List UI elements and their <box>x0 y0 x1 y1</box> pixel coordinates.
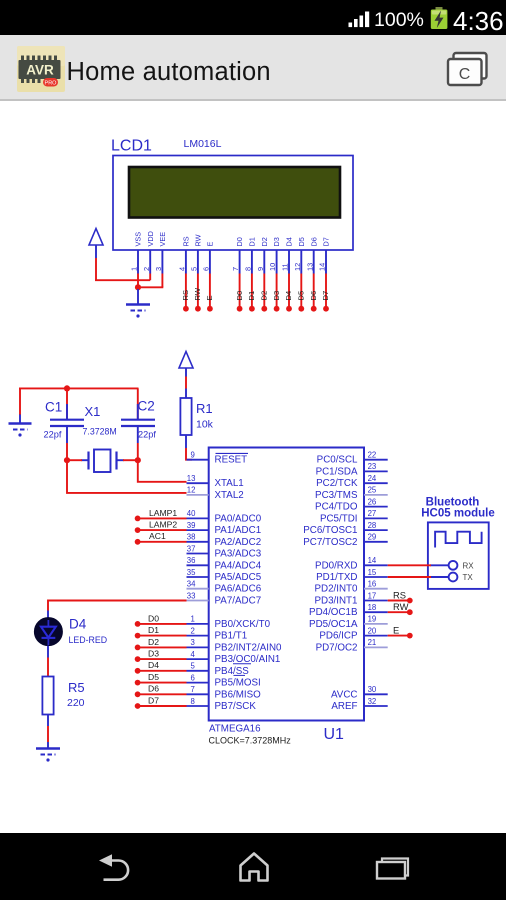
svg-text:PA5/ADC5: PA5/ADC5 <box>215 572 262 583</box>
svg-text:32: 32 <box>368 697 377 706</box>
LCD pin 11 stub <box>288 250 290 274</box>
resistor R1 value 10k <box>196 419 214 431</box>
svg-text:4: 4 <box>191 650 196 659</box>
signal bars icon <box>349 12 370 28</box>
wire VDD pin drop <box>149 274 151 281</box>
svg-text:D2: D2 <box>260 237 269 246</box>
net label D7 <box>321 291 330 301</box>
svg-text:PB2/INT2/AIN0: PB2/INT2/AIN0 <box>215 642 283 653</box>
pin number 12 <box>187 486 196 495</box>
pin name PA7/ADC7 <box>215 596 262 607</box>
LCD pin 6 stub <box>209 250 211 274</box>
nav back button <box>95 851 133 885</box>
svg-text:TX: TX <box>463 573 474 582</box>
pin 25 (PC3/TMS) stub <box>364 494 388 496</box>
svg-text:RX: RX <box>463 561 475 570</box>
LCD pin label RW <box>194 234 203 246</box>
svg-text:6: 6 <box>191 673 195 682</box>
svg-text:D5: D5 <box>148 672 159 682</box>
LCD screen <box>129 167 340 218</box>
pin 27 (PC5/TDI) stub <box>364 517 388 519</box>
svg-text:29: 29 <box>368 533 377 542</box>
pin name PD2/INT0 <box>314 584 358 595</box>
pin name PB2/INT2/AIN0 <box>215 642 283 653</box>
pin 26 (PC4/TDO) stub <box>364 506 388 508</box>
svg-text:16: 16 <box>368 580 377 589</box>
wire D0 (LCD pin 7) <box>239 274 241 308</box>
wire VEE to ground junction <box>138 286 163 288</box>
LCD pin number 13 <box>305 263 314 271</box>
pin number 32 <box>368 697 377 706</box>
svg-text:14: 14 <box>318 263 327 271</box>
svg-text:D1: D1 <box>247 291 256 301</box>
net label D5 <box>297 291 306 301</box>
svg-text:RS: RS <box>393 589 406 600</box>
node LAMP2 wire-end <box>135 527 141 533</box>
svg-text:7: 7 <box>231 267 240 271</box>
svg-text:RS: RS <box>182 236 191 246</box>
pin 7 (PB6/MISO) stub <box>187 693 209 695</box>
svg-text:ATMEGA16: ATMEGA16 <box>209 724 261 735</box>
wire D7 to PB7 <box>138 705 187 707</box>
net label D2 <box>148 637 159 647</box>
node D2 wire-end <box>135 645 141 651</box>
svg-text:PA1/ADC1: PA1/ADC1 <box>215 525 262 536</box>
wire ground riser <box>19 388 21 415</box>
node D7 wire-end <box>135 703 141 709</box>
svg-text:3: 3 <box>191 638 195 647</box>
svg-text:LAMP2: LAMP2 <box>149 520 177 530</box>
pin 40 (PA0/ADC0) stub <box>187 517 209 519</box>
pin 35 (PA5/ADC5) stub <box>187 576 209 578</box>
svg-text:5: 5 <box>190 267 199 271</box>
svg-text:LCD1: LCD1 <box>111 138 152 155</box>
svg-text:PC6/TOSC1: PC6/TOSC1 <box>303 525 357 536</box>
node D5 wire-end junction <box>298 306 304 312</box>
pin 6 (PB5/MOSI) stub <box>187 682 209 684</box>
svg-text:PA3/ADC3: PA3/ADC3 <box>215 549 262 560</box>
pin number 14 <box>368 556 377 565</box>
wire D6 to PB6 <box>138 693 187 695</box>
LCD pin 2 stub <box>149 250 151 274</box>
crystal X1 value 7.3728M <box>83 427 117 437</box>
capacitor C2 <box>121 388 155 443</box>
node AC1 wire-end <box>135 539 141 545</box>
net label E <box>205 295 214 300</box>
svg-text:15: 15 <box>368 568 377 577</box>
pin number 35 <box>187 568 196 577</box>
svg-text:E: E <box>205 295 214 300</box>
status bar clock 4:36 <box>453 6 504 37</box>
net label D1 <box>247 291 256 301</box>
pin number 33 <box>187 591 196 600</box>
pin number 39 <box>187 521 196 530</box>
LCD pin label D7 <box>322 237 331 246</box>
pin 13 (XTAL1) stub <box>187 482 209 484</box>
MCU label ATMEGA16 <box>209 724 261 735</box>
svg-text:PA6/ADC6: PA6/ADC6 <box>215 584 262 595</box>
pin 15 (PD1/TXD) stub <box>364 576 388 578</box>
svg-text:PD0/RXD: PD0/RXD <box>315 560 357 571</box>
LCD LCD1 body <box>113 156 353 251</box>
LED D4 <box>34 611 62 658</box>
svg-text:D4: D4 <box>69 617 87 632</box>
wire RW (right) <box>388 611 409 613</box>
pin 5 (PB4/SS) stub <box>187 670 209 672</box>
svg-text:D6: D6 <box>148 684 159 694</box>
svg-text:PD1/TXD: PD1/TXD <box>316 572 357 583</box>
pin name PD3/INT1 <box>314 596 357 607</box>
pin 21 (PD7/OC2) stub <box>364 646 388 648</box>
svg-text:PA7/ADC7: PA7/ADC7 <box>215 596 262 607</box>
pin number 25 <box>368 486 377 495</box>
node D4 wire-end junction <box>286 306 292 312</box>
LCD pin number 6 <box>202 267 211 271</box>
svg-text:D4: D4 <box>285 237 294 246</box>
pin number 24 <box>368 474 377 483</box>
svg-text:40: 40 <box>187 509 196 518</box>
wire VSS pin to ground <box>137 274 139 288</box>
svg-text:PD7/OC2: PD7/OC2 <box>316 642 358 653</box>
wire XTAL2 net <box>67 460 187 493</box>
node E wire-end junction <box>207 306 213 312</box>
net label RS (right) <box>393 589 406 600</box>
wire D6 (LCD pin 13) <box>313 274 315 308</box>
LCD pin number 3 <box>154 267 163 271</box>
pin number 17 <box>368 591 377 600</box>
pin name PD4/OC1B <box>309 607 358 618</box>
pin name PC3/TMS <box>315 490 358 501</box>
node XTAL2 junction <box>64 457 70 463</box>
svg-text:33: 33 <box>187 591 196 600</box>
node D0 wire-end <box>135 621 141 627</box>
wire D7 (LCD pin 14) <box>325 274 327 308</box>
pin name PC6/TOSC1 <box>303 525 357 536</box>
node D5 wire-end <box>135 680 141 686</box>
svg-text:220: 220 <box>67 697 85 709</box>
pin number 6 <box>191 673 195 682</box>
LCD pin label D3 <box>272 237 281 246</box>
wire power to VDD horizontal <box>95 279 150 281</box>
svg-text:D2: D2 <box>260 291 269 301</box>
pin number 36 <box>187 556 196 565</box>
pin number 18 <box>368 603 377 612</box>
svg-text:PC7/TOSC2: PC7/TOSC2 <box>303 537 357 548</box>
pin 24 (PC2/TCK) stub <box>364 482 388 484</box>
capacitor C1 <box>50 388 84 443</box>
svg-text:LED-RED: LED-RED <box>69 635 108 645</box>
wire PD0 to RX <box>388 564 431 566</box>
svg-text:22pf: 22pf <box>44 430 62 440</box>
svg-text:D2: D2 <box>148 637 159 647</box>
pin number 29 <box>368 533 377 542</box>
svg-text:9: 9 <box>256 267 265 271</box>
pin 29 (PC7/TOSC2) stub <box>364 541 388 543</box>
net label D6 <box>148 684 159 694</box>
pin number 40 <box>187 509 196 518</box>
pin number 30 <box>368 685 377 694</box>
wire D2 (LCD pin 9) <box>263 274 265 308</box>
LED D4 value LED-RED <box>69 635 108 645</box>
wire D5 to PB5 <box>138 682 187 684</box>
svg-text:PB6/MISO: PB6/MISO <box>215 689 262 700</box>
wire D3 to PB3 <box>138 658 187 660</box>
svg-text:D3: D3 <box>148 649 159 659</box>
pin name RESET <box>215 453 249 465</box>
LCD pin 13 stub <box>313 250 315 274</box>
node C1 top junction <box>64 385 70 391</box>
node LAMP1 wire-end <box>135 516 141 522</box>
pin number 23 <box>368 462 377 471</box>
ground (R5) <box>36 742 60 762</box>
svg-text:D0: D0 <box>235 291 244 301</box>
pin name PA4/ADC4 <box>215 560 262 571</box>
net label D4 <box>148 660 159 670</box>
svg-text:VSS: VSS <box>134 232 143 247</box>
capacitor C1 value 22pf <box>44 430 62 440</box>
svg-text:PC3/TMS: PC3/TMS <box>315 490 358 501</box>
LCD pin 9 stub <box>263 250 265 274</box>
capacitor C2 value 22pf <box>138 430 156 440</box>
LCD pin label D5 <box>297 237 306 246</box>
svg-text:AVCC: AVCC <box>331 689 358 700</box>
pin name XTAL2 <box>215 490 244 501</box>
svg-text:D0: D0 <box>235 237 244 246</box>
resistor R5 <box>42 677 53 727</box>
LCD pin 10 stub <box>276 250 278 274</box>
svg-text:19: 19 <box>368 615 377 624</box>
svg-text:XTAL1: XTAL1 <box>215 478 244 489</box>
LCD pin label D4 <box>285 237 294 246</box>
resistor R5 label <box>68 680 85 695</box>
svg-text:AC1: AC1 <box>149 531 166 541</box>
battery icon <box>431 7 448 29</box>
nav recents button <box>374 855 414 885</box>
pin name PC5/TDI <box>320 513 358 524</box>
capacitor C1 label <box>45 400 62 415</box>
svg-text:R1: R1 <box>196 401 213 416</box>
LCD pin number 12 <box>293 263 302 271</box>
wire E (LCD pin 6) <box>209 274 211 308</box>
LCD pin label RS <box>182 236 191 246</box>
Bluetooth TX pin label <box>463 573 474 582</box>
LCD pin 5 stub <box>197 250 199 274</box>
net label D2 <box>260 291 269 301</box>
ground (crystal caps) <box>9 414 32 437</box>
svg-text:XTAL2: XTAL2 <box>215 490 244 501</box>
pin 12 (XTAL2) stub <box>187 494 209 496</box>
app bar <box>0 35 506 101</box>
pin name PC4/TDO <box>315 502 358 513</box>
svg-text:PB0/XCK/T0: PB0/XCK/T0 <box>215 619 271 630</box>
crystal X1 <box>81 450 124 473</box>
capacitor C2 label <box>138 399 155 414</box>
pin 23 (PC1/SDA) stub <box>364 470 388 472</box>
pin 14 (PD0/RXD) stub <box>364 564 388 566</box>
svg-text:26: 26 <box>368 497 377 506</box>
wire E (right) <box>388 635 409 637</box>
svg-text:5: 5 <box>191 662 196 671</box>
pin 8 (PB7/SCK) stub <box>187 705 209 707</box>
pin 9 (RESET) stub <box>187 459 209 461</box>
node D1 wire-end junction <box>249 306 255 312</box>
crystal X1 label <box>85 404 101 419</box>
pin 18 (PD4/OC1B) stub <box>364 611 388 613</box>
net label D6 <box>309 291 318 301</box>
svg-text:R5: R5 <box>68 680 85 695</box>
app icon AVR <box>17 46 65 92</box>
net label AC1 <box>149 531 166 541</box>
Bluetooth module label line1 <box>426 497 480 509</box>
pin name PA3/ADC3 <box>215 549 262 560</box>
svg-text:38: 38 <box>187 533 196 542</box>
wire LAMP1 <box>138 517 187 519</box>
svg-text:23: 23 <box>368 462 377 471</box>
svg-text:D6: D6 <box>309 291 318 301</box>
pin 34 (PA6/ADC6) stub <box>187 588 209 590</box>
svg-text:13: 13 <box>187 474 196 483</box>
LCD pin label VSS <box>134 232 143 247</box>
LCD pin label D6 <box>309 237 318 246</box>
svg-text:D3: D3 <box>272 291 281 301</box>
wire PA7 to LED D4 <box>48 601 187 611</box>
svg-text:PA4/ADC4: PA4/ADC4 <box>215 560 262 571</box>
net label D5 <box>148 672 159 682</box>
wire C1 to X1 <box>66 459 82 461</box>
MCU clock label <box>209 736 292 746</box>
svg-text:E: E <box>206 242 215 247</box>
svg-text:PC4/TDO: PC4/TDO <box>315 502 358 513</box>
pin number 7 <box>191 685 195 694</box>
pin name PB7/SCK <box>215 701 257 712</box>
app bar title <box>67 58 271 87</box>
svg-text:3: 3 <box>154 267 163 271</box>
wire C1 bottom <box>66 443 68 460</box>
wire RS (right) <box>388 600 409 602</box>
wire D5 (LCD pin 12) <box>300 274 302 308</box>
pin name PB6/MISO <box>215 689 262 700</box>
wire PD1 to TX <box>388 576 431 578</box>
node D0 wire-end junction <box>237 306 243 312</box>
net label RS <box>181 290 190 301</box>
pin number 1 <box>191 615 195 624</box>
svg-text:PD2/INT0: PD2/INT0 <box>314 584 358 595</box>
svg-text:E: E <box>393 624 399 635</box>
node D2 wire-end junction <box>261 306 267 312</box>
node RS wire-end <box>407 598 413 604</box>
pin number 8 <box>191 697 195 706</box>
pin 3 (PB2/INT2/AIN0) stub <box>187 646 209 648</box>
svg-text:34: 34 <box>187 580 196 589</box>
pin 1 (PB0/XCK/T0) stub <box>187 623 209 625</box>
pin number 5 <box>191 662 196 671</box>
pin number 34 <box>187 580 196 589</box>
svg-text:1: 1 <box>191 615 195 624</box>
node D3 wire-end <box>135 656 141 662</box>
LCD pin number 11 <box>281 263 290 271</box>
pin name PB1/T1 <box>215 631 248 642</box>
net label E (right) <box>393 624 399 635</box>
pin number 21 <box>368 638 377 647</box>
svg-text:D7: D7 <box>321 291 330 301</box>
svg-text:PB7/SCK: PB7/SCK <box>215 701 257 712</box>
wire power to VDD vertical <box>95 258 97 281</box>
pin 33 (PA7/ADC7) stub <box>187 600 209 602</box>
svg-text:C2: C2 <box>138 399 155 414</box>
MCU reference U1 <box>324 726 345 743</box>
wire D4 (LCD pin 11) <box>288 274 290 308</box>
svg-text:PA0/ADC0: PA0/ADC0 <box>215 513 262 524</box>
node D4 wire-end <box>135 668 141 674</box>
svg-text:8: 8 <box>191 697 195 706</box>
svg-text:22pf: 22pf <box>138 430 156 440</box>
wire RW (LCD pin 5) <box>197 274 199 308</box>
pin 4 (PB3/OC0/AIN1) stub <box>187 658 209 660</box>
pin 32 (AREF) stub <box>364 705 388 707</box>
Bluetooth module body <box>428 522 489 589</box>
svg-text:37: 37 <box>187 544 196 553</box>
LCD pin label E <box>206 242 215 247</box>
svg-text:28: 28 <box>368 521 377 530</box>
status bar icons <box>0 0 506 35</box>
svg-text:PC0/SCL: PC0/SCL <box>317 455 358 466</box>
wire D4 to PB4 <box>138 670 187 672</box>
pin number 3 <box>191 638 195 647</box>
net label D1 <box>148 625 159 635</box>
node RW wire-end junction <box>195 306 201 312</box>
pin number 4 <box>191 650 196 659</box>
LCD pin 1 stub <box>137 250 139 274</box>
svg-text:25: 25 <box>368 486 377 495</box>
svg-text:D6: D6 <box>309 237 318 246</box>
svg-text:7: 7 <box>191 685 195 694</box>
wire LAMP2 <box>138 529 187 531</box>
pin 16 (PD2/INT0) stub <box>364 588 388 590</box>
pin 22 (PC0/SCL) stub <box>364 459 388 461</box>
net label D0 <box>235 291 244 301</box>
svg-text:RW: RW <box>193 287 202 300</box>
svg-text:VEE: VEE <box>158 232 167 247</box>
power +5V terminal (R1) <box>179 352 193 377</box>
node XTAL1 junction <box>135 457 141 463</box>
wire R5 to ground <box>47 726 49 742</box>
svg-text:30: 30 <box>368 685 377 694</box>
wire RS (LCD pin 4) <box>185 274 187 308</box>
svg-text:PD3/INT1: PD3/INT1 <box>314 596 357 607</box>
wire LED to R5 <box>47 658 49 677</box>
pin name PB4/SS <box>215 666 250 677</box>
ground (LCD) <box>126 289 150 318</box>
LCD pin number 1 <box>130 267 139 271</box>
svg-text:10k: 10k <box>196 419 214 431</box>
svg-text:39: 39 <box>187 521 196 530</box>
svg-text:X1: X1 <box>85 404 101 419</box>
MCU U1 ATMEGA16 body <box>209 448 364 721</box>
wire AC1 <box>138 541 187 543</box>
nav home button <box>238 851 272 885</box>
pin name PC7/TOSC2 <box>303 537 357 548</box>
svg-text:RS: RS <box>181 290 190 301</box>
svg-text:D5: D5 <box>297 291 306 301</box>
Bluetooth module waveform glyph <box>435 532 482 548</box>
pin number 2 <box>191 626 195 635</box>
wire D1 (LCD pin 8) <box>251 274 253 308</box>
power +5V terminal (LCD VDD) <box>89 229 103 259</box>
svg-text:12: 12 <box>187 486 196 495</box>
svg-text:PA2/ADC2: PA2/ADC2 <box>215 537 262 548</box>
svg-text:10: 10 <box>268 263 277 271</box>
svg-text:RW: RW <box>194 234 203 246</box>
